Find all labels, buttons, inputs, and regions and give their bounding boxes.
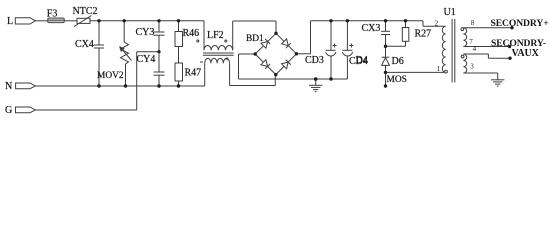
svg-text:NTC2: NTC2 xyxy=(73,6,98,17)
svg-text:CX3: CX3 xyxy=(362,23,381,34)
svg-text:N: N xyxy=(5,81,12,92)
svg-text:VAUX: VAUX xyxy=(512,48,540,59)
svg-text:F3: F3 xyxy=(47,9,58,20)
svg-text:3: 3 xyxy=(470,63,474,71)
svg-text:SECONDRY-: SECONDRY- xyxy=(491,38,546,49)
svg-text:U1: U1 xyxy=(444,7,456,18)
svg-text:MOS: MOS xyxy=(387,75,407,85)
svg-text:G: G xyxy=(5,105,12,116)
svg-text:BD1: BD1 xyxy=(246,34,264,44)
svg-text:R46: R46 xyxy=(183,28,200,39)
svg-text:MOV2: MOV2 xyxy=(97,71,124,81)
svg-text:LF2: LF2 xyxy=(207,30,224,41)
svg-text:4: 4 xyxy=(473,45,477,53)
svg-text:SECONDRY+: SECONDRY+ xyxy=(491,18,549,29)
svg-text:L: L xyxy=(7,16,13,27)
svg-text:R27: R27 xyxy=(415,28,432,39)
svg-text:CD3: CD3 xyxy=(305,55,324,66)
svg-text:2: 2 xyxy=(435,19,439,27)
svg-text:1: 1 xyxy=(437,65,441,73)
svg-text:D4: D4 xyxy=(356,55,368,66)
svg-text:CY4: CY4 xyxy=(137,54,156,65)
svg-text:CY3: CY3 xyxy=(136,27,155,38)
svg-text:CX4: CX4 xyxy=(75,39,94,50)
svg-text:8: 8 xyxy=(471,19,475,27)
svg-text:R47: R47 xyxy=(185,67,202,78)
svg-text:D6: D6 xyxy=(392,56,404,67)
